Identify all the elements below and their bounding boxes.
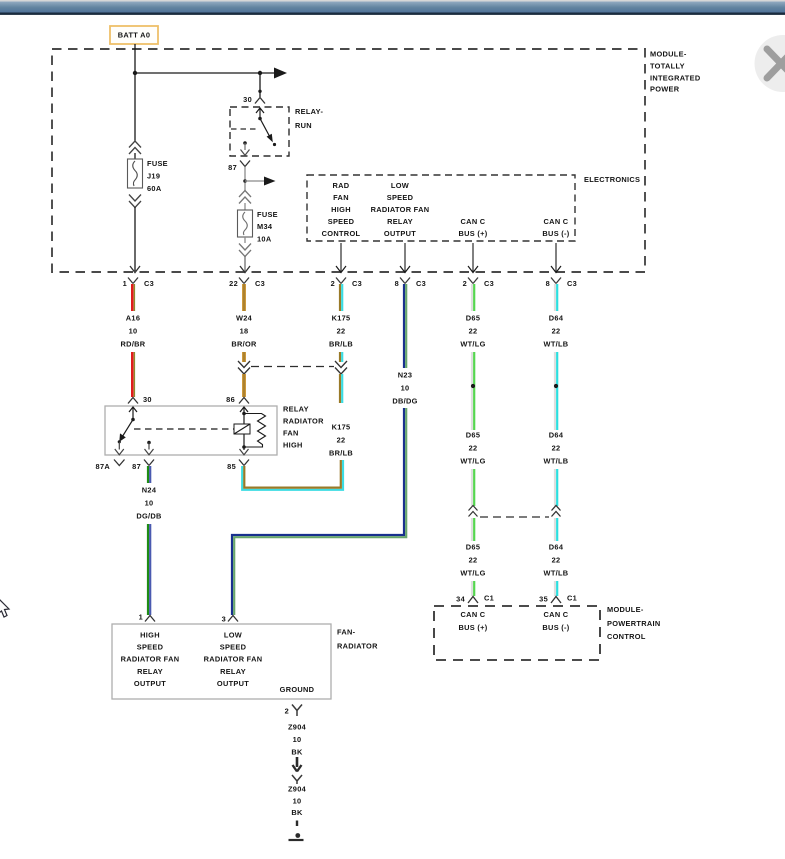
junction dot left <box>133 71 137 75</box>
label MODULE-POWERTRAIN CONTROL <box>607 605 661 641</box>
svg-text:RD/BR: RD/BR <box>121 340 146 349</box>
wire below fuse M34 <box>244 237 246 243</box>
inline connector chevrons wire K175 <box>335 361 347 374</box>
label FAN-RADIATOR <box>337 628 378 651</box>
wire D64 segment to inline connector <box>555 469 557 506</box>
relay-run switch arm diagonal <box>260 119 276 147</box>
svg-text:DG/DB: DG/DB <box>136 512 161 521</box>
inline break chevrons below fuse J19 <box>129 195 141 208</box>
ground G1 symbol <box>289 833 304 840</box>
svg-text:HIGH: HIGH <box>331 205 351 214</box>
svg-text:SPEED: SPEED <box>387 193 414 202</box>
dashed jumper between D65 and D64 <box>480 516 549 518</box>
svg-text:RELAY: RELAY <box>220 667 246 676</box>
pin 87 connector half <box>132 460 154 472</box>
label N23 10 DB/DG <box>392 371 417 406</box>
relay U1 RELAY-RUN dashed box <box>230 107 289 156</box>
svg-text:TOTALLY: TOTALLY <box>650 62 685 71</box>
svg-text:BATT A0: BATT A0 <box>118 31 150 40</box>
svg-text:OUTPUT: OUTPUT <box>217 679 249 688</box>
pin 34 connector half (PCM) <box>456 594 494 604</box>
label ELECTRONICS <box>584 175 640 184</box>
pin 3 connector half (fan) <box>222 615 238 624</box>
relay K1 RELAY RADIATOR FAN HIGH box <box>105 406 277 455</box>
svg-text:SPEED: SPEED <box>328 217 355 226</box>
net CAN C BUS (+) <box>459 217 488 238</box>
svg-text:K175: K175 <box>332 314 351 323</box>
svg-text:POWERTRAIN: POWERTRAIN <box>607 619 661 628</box>
svg-text:D64: D64 <box>549 314 564 323</box>
svg-text:LOW: LOW <box>224 631 242 640</box>
pin 1 connector half (fan) <box>139 613 155 622</box>
relay K1 87A arrow down to edge <box>115 442 124 455</box>
module TIPM dashed outline <box>52 49 645 272</box>
relay K1 87 contact arrow down <box>145 441 154 455</box>
svg-text:A16: A16 <box>126 314 140 323</box>
wire N24 lower segment to fan pin 1 <box>148 524 150 615</box>
svg-text:CONTROL: CONTROL <box>322 229 361 238</box>
label D65 22 WT/LG third <box>460 543 485 578</box>
wire Z904 arrow to splice <box>293 757 302 772</box>
wire N23 DB/DG corner run to fan pin 3 <box>232 408 406 615</box>
svg-text:FAN-: FAN- <box>337 628 356 637</box>
label D64 22 WT/LB third <box>544 543 569 578</box>
svg-text:C1: C1 <box>484 594 494 603</box>
relay K1 switch arm to 87A <box>118 420 133 444</box>
svg-text:10: 10 <box>293 735 302 744</box>
label D65 22 WT/LG second <box>460 431 485 466</box>
wire D64 22 WT/LB upper segment <box>555 284 557 311</box>
svg-text:1: 1 <box>123 279 127 288</box>
dashed jumper between W24 and K175 <box>251 366 334 368</box>
svg-text:10: 10 <box>293 797 302 806</box>
wire W24 mid segment <box>242 352 246 362</box>
label FUSE M34 10A <box>257 210 278 244</box>
pin 87A connector half unused <box>96 460 125 472</box>
label K175 22 BR/LB <box>329 314 353 349</box>
inline connector chevrons wire W24 <box>238 361 250 374</box>
svg-text:OUTPUT: OUTPUT <box>384 229 416 238</box>
svg-text:86: 86 <box>226 395 235 404</box>
label K175 22 BR/LB second <box>329 423 353 458</box>
svg-text:8: 8 <box>395 279 399 288</box>
svg-text:WT/LB: WT/LB <box>544 569 569 578</box>
wire bus down to relay run pin 30 <box>258 73 261 97</box>
inline break chevrons above fuse M34 <box>239 191 251 204</box>
wire A16 10 RD/BR upper segment <box>132 284 134 311</box>
svg-text:Z904: Z904 <box>288 723 307 732</box>
label RELAY-RUN <box>295 107 323 130</box>
arrow bus continues right <box>274 68 287 79</box>
label Z904 10 BK upper <box>288 723 307 757</box>
net LOW SPEED RADIATOR FAN RELAY OUTPUT (fan) <box>204 631 263 688</box>
svg-text:K175: K175 <box>332 423 351 432</box>
svg-text:WT/LG: WT/LG <box>460 457 485 466</box>
wire D65 segment to inline connector <box>472 469 474 506</box>
svg-text:BR/LB: BR/LB <box>329 449 353 458</box>
svg-text:CAN C: CAN C <box>461 217 486 226</box>
svg-text:WT/LB: WT/LB <box>544 457 569 466</box>
svg-text:22: 22 <box>552 444 561 453</box>
svg-text:35: 35 <box>539 595 548 604</box>
svg-text:2: 2 <box>285 707 289 716</box>
svg-text:C3: C3 <box>352 279 362 288</box>
junction dot right <box>258 71 262 75</box>
pin 86 connector half (relay radiator fan high) <box>226 395 249 404</box>
wire D65 segment below inline connector <box>472 518 474 541</box>
svg-text:SPEED: SPEED <box>137 643 164 652</box>
svg-text:CAN C: CAN C <box>461 610 486 619</box>
svg-text:ELECTRONICS: ELECTRONICS <box>584 175 640 184</box>
svg-text:C1: C1 <box>567 594 577 603</box>
svg-text:INTEGRATED: INTEGRATED <box>650 74 701 83</box>
net CAN C BUS (+) PCM <box>459 610 488 632</box>
label W24 18 BR/OR <box>231 314 257 349</box>
svg-text:GROUND: GROUND <box>280 685 315 694</box>
svg-text:N24: N24 <box>142 486 157 495</box>
wire W24 lower segment to relay pin 86 <box>242 374 246 397</box>
wire down to fuse J19 <box>134 73 136 141</box>
wire K175 mid segment <box>340 352 342 362</box>
svg-text:C3: C3 <box>484 279 494 288</box>
svg-text:OUTPUT: OUTPUT <box>134 679 166 688</box>
arrow relay output to edge <box>400 243 410 273</box>
inline connector chevrons wire D65 <box>469 506 478 517</box>
nav button circle <box>755 35 785 92</box>
svg-text:34: 34 <box>456 595 465 604</box>
wire D64 segment below inline connector <box>555 518 557 541</box>
relay K1 coil linkage dashed <box>134 428 234 430</box>
fuse F2 M34 <box>238 210 253 237</box>
svg-text:DB/DG: DB/DG <box>392 397 417 406</box>
svg-text:RADIATOR FAN: RADIATOR FAN <box>371 205 430 214</box>
svg-text:FUSE: FUSE <box>257 210 278 219</box>
module ELECTRONICS dashed box <box>307 175 575 241</box>
relay K1 coil to pin 85 <box>240 434 249 455</box>
svg-text:60A: 60A <box>147 184 162 193</box>
svg-text:RADIATOR: RADIATOR <box>337 642 378 651</box>
svg-text:RAD: RAD <box>333 181 350 190</box>
svg-text:22: 22 <box>337 327 346 336</box>
connector pin 8 C3 CAN- <box>546 278 577 289</box>
wire D64 segment to PCM pin 35 <box>555 581 557 596</box>
net LOW SPEED RADIATOR FAN RELAY OUTPUT <box>371 181 430 238</box>
arrow 87 feed continues right <box>264 177 276 186</box>
svg-text:D65: D65 <box>466 431 480 440</box>
svg-text:CONTROL: CONTROL <box>607 632 646 641</box>
svg-text:BUS (+): BUS (+) <box>459 623 488 632</box>
wire K175 22 BR/LB upper segment <box>340 284 342 311</box>
svg-text:BK: BK <box>291 808 303 817</box>
wire horizontal bus node <box>135 72 274 74</box>
relay K1 coil feed arrow up from pin 86 <box>240 407 248 424</box>
net GROUND <box>280 685 315 694</box>
svg-text:1: 1 <box>139 613 143 622</box>
relay K1 coil symbol <box>234 424 250 434</box>
inline break chevrons below fuse M34 <box>239 244 251 257</box>
relay-run pin 87 contact arrow down <box>241 141 250 155</box>
svg-text:22: 22 <box>469 444 478 453</box>
label RELAY RADIATOR FAN HIGH <box>283 405 324 450</box>
wire A16 lower segment to relay pin 30 <box>132 352 134 397</box>
svg-text:BR/OR: BR/OR <box>231 340 257 349</box>
wire 87 output gray <box>244 167 246 192</box>
svg-text:J19: J19 <box>147 172 160 181</box>
pin 30 connector half (relay-run) <box>243 95 265 104</box>
svg-text:22: 22 <box>469 556 478 565</box>
svg-text:LOW: LOW <box>391 181 409 190</box>
svg-text:POWER: POWER <box>650 85 680 94</box>
svg-text:HIGH: HIGH <box>140 631 160 640</box>
svg-text:10: 10 <box>145 499 154 508</box>
wire D65 segment to PCM pin 34 <box>472 581 474 596</box>
wire D64 segment with junction dot <box>554 352 558 430</box>
svg-text:87: 87 <box>132 462 141 471</box>
svg-text:30: 30 <box>143 395 152 404</box>
svg-text:CAN C: CAN C <box>544 610 569 619</box>
svg-text:N23: N23 <box>398 371 412 380</box>
svg-text:22: 22 <box>552 327 561 336</box>
svg-text:WT/LG: WT/LG <box>460 340 485 349</box>
label D64 22 WT/LB second <box>544 431 569 466</box>
svg-text:22: 22 <box>229 279 238 288</box>
svg-text:3: 3 <box>222 615 226 624</box>
svg-text:87A: 87A <box>96 462 111 471</box>
svg-text:BUS (-): BUS (-) <box>542 229 569 238</box>
inline break chevrons above fuse J19 <box>129 141 141 154</box>
svg-text:WT/LB: WT/LB <box>544 340 569 349</box>
arrow CAN- to edge <box>551 243 561 273</box>
wire W24 18 BR/OR upper segment <box>242 284 246 311</box>
label Z904 10 BK lower <box>288 785 307 818</box>
svg-text:BR/LB: BR/LB <box>329 340 353 349</box>
wire N24 10 DG/DB from pin 87 <box>148 466 150 483</box>
svg-text:Z904: Z904 <box>288 785 307 794</box>
wire stub to ground <box>296 821 298 827</box>
net RAD FAN HIGH SPEED CONTROL <box>322 181 361 238</box>
wire K175 segment below inline connector <box>340 374 342 403</box>
svg-text:22: 22 <box>337 436 346 445</box>
svg-text:30: 30 <box>243 95 252 104</box>
connector pin 2 C3 <box>331 278 362 289</box>
arrow control output to edge <box>336 243 346 273</box>
svg-text:22: 22 <box>469 327 478 336</box>
svg-text:MODULE-: MODULE- <box>650 50 687 59</box>
svg-text:10: 10 <box>129 327 138 336</box>
svg-text:10: 10 <box>401 384 410 393</box>
label D64 22 WT/LB <box>544 314 569 349</box>
svg-text:87: 87 <box>228 163 237 172</box>
resistor R1 suppression across coil <box>244 414 266 448</box>
wire into fuse J19 <box>134 153 136 159</box>
label A16 10 RD/BR <box>121 314 146 349</box>
wire to TIPM edge with arrow <box>130 207 140 273</box>
svg-text:2: 2 <box>463 279 467 288</box>
wire N23 10 DB/DG upper segment <box>404 284 406 368</box>
svg-text:8: 8 <box>546 279 550 288</box>
svg-text:RUN: RUN <box>295 121 312 130</box>
svg-text:CAN C: CAN C <box>544 217 569 226</box>
pin 87 connector half below relay-run <box>228 161 250 173</box>
pin 2 connector half (fan ground) <box>285 705 302 717</box>
arrow CAN+ to edge <box>468 243 478 273</box>
svg-text:RADIATOR FAN: RADIATOR FAN <box>121 655 180 664</box>
svg-text:RADIATOR FAN: RADIATOR FAN <box>204 655 263 664</box>
connector pin 22 C3 <box>229 278 265 289</box>
wire BATT A0 down into TIPM <box>134 44 136 73</box>
connector pin 2 C3 CAN+ <box>463 278 494 289</box>
connector pin 8 C3 <box>395 278 426 289</box>
splice connector half <box>292 775 302 784</box>
svg-text:WT/LG: WT/LG <box>460 569 485 578</box>
label D65 22 WT/LG <box>460 314 485 349</box>
svg-text:RELAY: RELAY <box>283 405 309 414</box>
module PCM dashed box <box>434 606 600 660</box>
svg-text:M34: M34 <box>257 222 273 231</box>
svg-text:D65: D65 <box>466 314 480 323</box>
svg-text:C3: C3 <box>144 279 154 288</box>
fuse F1 J19 <box>128 159 143 188</box>
pin 30 connector half (relay radiator fan high) <box>128 395 152 404</box>
svg-text:BK: BK <box>291 748 303 757</box>
inline connector chevrons wire D64 <box>552 506 561 517</box>
svg-text:RELAY-: RELAY- <box>295 107 323 116</box>
svg-text:HIGH: HIGH <box>283 441 303 450</box>
connector pin 1 C3 <box>123 278 154 289</box>
wire D65 segment with junction dot <box>471 352 475 430</box>
net HIGH SPEED RADIATOR FAN RELAY OUTPUT <box>121 631 180 688</box>
svg-text:D64: D64 <box>549 431 564 440</box>
svg-text:22: 22 <box>552 556 561 565</box>
svg-text:D65: D65 <box>466 543 480 552</box>
net CAN C BUS (-) PCM <box>542 610 569 632</box>
wire stub to arrow <box>245 180 264 182</box>
wire BR/LB jumper pin 85 to K175 <box>242 460 343 490</box>
battery feed BATT A0 <box>110 26 158 44</box>
pin 85 connector half <box>227 460 249 472</box>
label N24 10 DG/DB <box>136 486 161 521</box>
svg-text:C3: C3 <box>255 279 265 288</box>
svg-text:FUSE: FUSE <box>147 159 168 168</box>
pin 35 connector half (PCM) <box>539 594 577 604</box>
svg-text:MODULE-: MODULE- <box>607 605 644 614</box>
svg-text:RADIATOR: RADIATOR <box>283 417 324 426</box>
svg-text:2: 2 <box>331 279 335 288</box>
svg-text:BUS (-): BUS (-) <box>542 623 569 632</box>
svg-text:FAN: FAN <box>283 429 299 438</box>
junction dot on 87 wire <box>243 179 247 183</box>
relay K1 common contact arrow up <box>129 407 137 421</box>
net CAN C BUS (-) <box>542 217 569 238</box>
relay-run coil linkage dashed <box>231 128 258 130</box>
relay-run common contact arrow up <box>256 108 264 120</box>
svg-text:FAN: FAN <box>333 193 349 202</box>
wire D65 22 WT/LG upper segment <box>472 284 474 311</box>
svg-text:D64: D64 <box>549 543 564 552</box>
wire to TIPM edge with arrow <box>240 256 250 273</box>
svg-text:10A: 10A <box>257 235 272 244</box>
svg-text:RELAY: RELAY <box>137 667 163 676</box>
svg-text:SPEED: SPEED <box>220 643 247 652</box>
wire into fuse M34 <box>244 203 246 210</box>
module FAN-RADIATOR box <box>112 624 331 699</box>
svg-text:85: 85 <box>227 462 236 471</box>
label FUSE J19 60A <box>147 159 168 193</box>
svg-text:W24: W24 <box>236 314 253 323</box>
svg-text:RELAY: RELAY <box>387 217 413 226</box>
svg-text:18: 18 <box>240 327 249 336</box>
svg-text:BUS (+): BUS (+) <box>459 229 488 238</box>
svg-text:C3: C3 <box>416 279 426 288</box>
label MODULE-TOTALLY INTEGRATED POWER <box>650 50 701 94</box>
svg-text:C3: C3 <box>567 279 577 288</box>
mouse cursor <box>0 597 9 617</box>
